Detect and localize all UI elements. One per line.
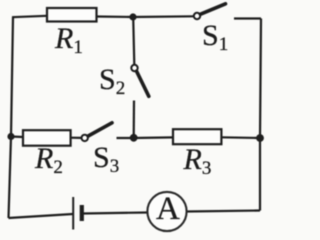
wire ammeter to battery bbox=[83, 213, 147, 214]
wire top-left horizontal to R1 bbox=[12, 16, 47, 17]
battery cell: short thick plate bbox=[80, 205, 84, 221]
switch S2 pivot bbox=[131, 65, 137, 71]
node C (junction left, on left wire) bbox=[7, 133, 14, 140]
resistor R2 bbox=[23, 130, 71, 146]
label S3 bbox=[93, 143, 119, 176]
switch S1 lever bbox=[201, 4, 226, 14]
node A (junction top, R1/S1/S2) bbox=[129, 13, 136, 20]
battery cell: long thin plate bbox=[72, 197, 74, 230]
wire left side vertical bbox=[9, 17, 14, 218]
label S2 bbox=[99, 65, 125, 98]
label S1 bbox=[202, 21, 228, 54]
wire S1 right stub bbox=[234, 17, 261, 19]
node B (junction middle, S2/S3/R3) bbox=[130, 134, 138, 142]
wire left node to R2 bbox=[11, 135, 23, 138]
ammeter A (meter circle) bbox=[147, 192, 186, 231]
node D (junction right, on right wire) bbox=[256, 134, 264, 142]
resistor R3 bbox=[173, 129, 221, 144]
wire node to S2 pivot bbox=[133, 17, 134, 65]
label A (ammeter letter) bbox=[156, 193, 180, 226]
resistor R1 bbox=[47, 8, 97, 22]
switch S1 pivot bbox=[194, 13, 200, 19]
wire S3 to middle node bbox=[117, 137, 134, 139]
switch S3 pivot bbox=[82, 135, 88, 141]
wire node to S1 pivot bbox=[133, 15, 194, 18]
switch S3 lever bbox=[88, 123, 112, 136]
label R2 bbox=[35, 144, 63, 177]
wire bottom right: corner to ammeter bbox=[187, 211, 260, 212]
wire R1 to node bbox=[97, 15, 134, 18]
label R3 bbox=[184, 145, 212, 178]
wire R2 to S3 pivot bbox=[71, 137, 82, 139]
switch S2 lever bbox=[137, 71, 149, 96]
label R1 bbox=[55, 24, 83, 57]
wire S2 lever end to middle node bbox=[133, 101, 136, 139]
wire right side vertical bbox=[260, 19, 261, 211]
wire battery to bottom-left corner bbox=[9, 214, 74, 218]
wire R3 to right side bbox=[221, 136, 260, 139]
wire middle node to R3 bbox=[134, 136, 173, 139]
